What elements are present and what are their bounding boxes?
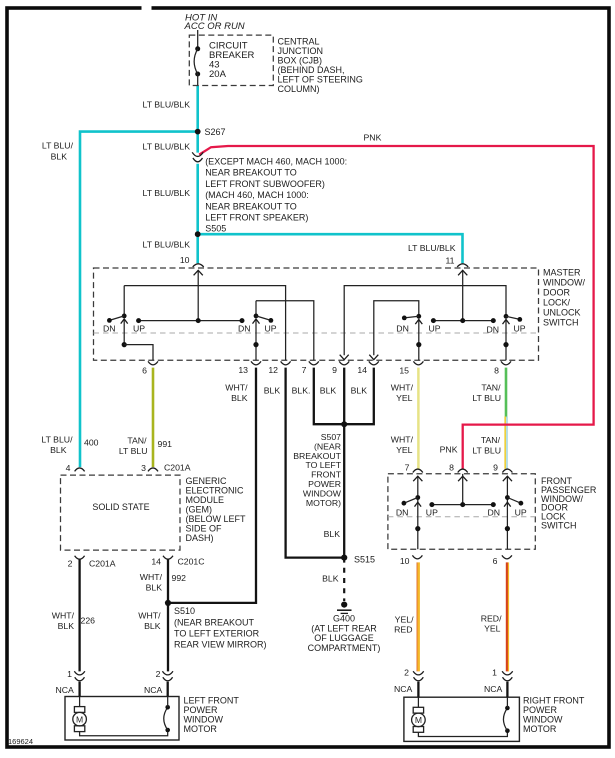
svg-text:LT BLU/BLK: LT BLU/BLK bbox=[143, 240, 191, 250]
svg-text:BLK: BLK bbox=[320, 386, 337, 396]
svg-text:LT BLU/BLK: LT BLU/BLK bbox=[143, 142, 191, 152]
svg-text:10: 10 bbox=[400, 556, 410, 566]
svg-text:992: 992 bbox=[172, 573, 187, 583]
svg-text:9: 9 bbox=[332, 365, 337, 375]
svg-text:14: 14 bbox=[357, 365, 367, 375]
front passenger window/door lock switch box bbox=[388, 474, 535, 550]
svg-text:2: 2 bbox=[68, 559, 73, 569]
svg-text:M: M bbox=[415, 715, 422, 725]
svg-text:C201A: C201A bbox=[89, 559, 116, 569]
master pin connector arcs bottom bbox=[148, 361, 158, 364]
svg-text:BLK: BLK bbox=[50, 445, 67, 455]
svg-text:15: 15 bbox=[399, 366, 409, 376]
svg-text:LT BLU: LT BLU bbox=[119, 446, 148, 456]
svg-text:BLK: BLK bbox=[322, 574, 339, 584]
svg-text:DN: DN bbox=[238, 324, 251, 334]
svg-text:LT BLU/: LT BLU/ bbox=[42, 141, 74, 151]
splice S510 bbox=[165, 600, 171, 606]
svg-text:NEAR BREAKOUT TO: NEAR BREAKOUT TO bbox=[205, 201, 297, 211]
LF motor M symbol bbox=[79, 697, 81, 707]
master rocker 1 (LF window) bbox=[123, 286, 125, 316]
passenger pin connector arcs bottom (10, 6) bbox=[412, 555, 422, 558]
splice S507 bbox=[341, 421, 347, 427]
svg-text:WHT/: WHT/ bbox=[391, 435, 414, 445]
svg-text:1: 1 bbox=[67, 669, 72, 679]
svg-text:UP: UP bbox=[514, 324, 526, 334]
ground G400 bbox=[341, 602, 347, 608]
svg-text:NCA: NCA bbox=[394, 684, 413, 694]
svg-text:UP: UP bbox=[426, 508, 438, 518]
RF motor M symbol bbox=[417, 697, 419, 707]
svg-text:169624: 169624 bbox=[8, 737, 33, 746]
wire H2: rocker 2 top to master pin 7 bbox=[256, 301, 314, 361]
svg-text:12: 12 bbox=[268, 365, 278, 375]
wire H3: master pin 9 arrow to rocker 4 bbox=[344, 286, 506, 356]
generic electronic module (GEM) box bbox=[61, 475, 181, 550]
central junction box (CJB) dashed box bbox=[189, 35, 273, 85]
svg-text:WHT/: WHT/ bbox=[225, 383, 248, 393]
svg-text:6: 6 bbox=[142, 366, 147, 376]
master pin 11 stem with arrow bbox=[462, 271, 464, 321]
svg-text:TO LEFT EXTERIOR: TO LEFT EXTERIOR bbox=[174, 629, 260, 639]
svg-text:LT BLU: LT BLU bbox=[472, 446, 501, 456]
master pin 10 stem with arrow bbox=[197, 271, 199, 321]
master feed bus (pin 10 side) bbox=[139, 320, 242, 322]
svg-text:BLK: BLK bbox=[231, 393, 248, 403]
splice S267 bbox=[195, 129, 201, 135]
svg-text:SIDE OF: SIDE OF bbox=[186, 524, 223, 534]
svg-text:S267: S267 bbox=[205, 127, 226, 137]
wire RED/YEL: passenger pin 6 to RF motor pin 1 bbox=[506, 562, 508, 671]
wire BLK: master pin 12 to S515 bbox=[286, 368, 345, 558]
svg-text:MOTOR: MOTOR bbox=[523, 724, 557, 734]
RF motor pin 1 inline connector bbox=[502, 671, 513, 675]
svg-text:3: 3 bbox=[141, 463, 146, 473]
svg-text:(EXCEPT MACH 460, MACH 1000:: (EXCEPT MACH 460, MACH 1000: bbox=[205, 157, 347, 167]
svg-text:14: 14 bbox=[151, 557, 161, 567]
passenger pin connector arcs top (7, 8, 9) bbox=[413, 469, 423, 472]
svg-text:991: 991 bbox=[158, 439, 173, 449]
wire BLK dashed: S515 to G400 bbox=[343, 558, 345, 601]
svg-text:UP: UP bbox=[429, 324, 441, 334]
svg-text:MOTOR): MOTOR) bbox=[306, 498, 341, 508]
svg-text:LEFT FRONT: LEFT FRONT bbox=[184, 696, 240, 706]
svg-text:PNK: PNK bbox=[364, 133, 382, 143]
svg-text:WHT/: WHT/ bbox=[138, 611, 161, 621]
splice S515 bbox=[341, 555, 347, 561]
svg-text:BLK: BLK bbox=[146, 583, 163, 593]
svg-text:RED/: RED/ bbox=[481, 614, 502, 624]
svg-text:1: 1 bbox=[492, 668, 497, 678]
svg-text:NCA: NCA bbox=[56, 685, 75, 695]
svg-text:UP: UP bbox=[133, 324, 145, 334]
svg-text:20A: 20A bbox=[209, 69, 227, 80]
passenger switch inner divider bbox=[388, 516, 535, 518]
RF motor internal breaker contact bbox=[418, 731, 507, 737]
svg-text:DASH): DASH) bbox=[186, 533, 214, 543]
svg-text:BLK: BLK bbox=[324, 529, 341, 539]
svg-text:(AT LEFT REAR: (AT LEFT REAR bbox=[311, 623, 377, 633]
svg-text:RED: RED bbox=[394, 625, 412, 635]
svg-text:YEL: YEL bbox=[396, 393, 413, 403]
svg-text:DOOR: DOOR bbox=[543, 288, 571, 298]
svg-text:S510: S510 bbox=[174, 606, 195, 616]
right front power window motor box bbox=[404, 697, 520, 741]
wire WHT/BLK 992: GEM pin 14 down through S510 to LF motor pin 2 bbox=[167, 559, 169, 671]
svg-text:8: 8 bbox=[494, 366, 499, 376]
svg-text:NCA: NCA bbox=[484, 684, 503, 694]
passenger feed bus from pin 8 bbox=[462, 474, 464, 505]
svg-text:RIGHT FRONT: RIGHT FRONT bbox=[523, 696, 585, 706]
svg-text:ACC OR RUN: ACC OR RUN bbox=[184, 21, 245, 32]
svg-text:BLK: BLK bbox=[351, 386, 368, 396]
svg-text:LT BLU/: LT BLU/ bbox=[41, 435, 73, 445]
wire H4: master pin 14 arrow to rocker 3 bbox=[374, 301, 419, 356]
svg-text:WHT/: WHT/ bbox=[391, 383, 414, 393]
svg-text:UNLOCK: UNLOCK bbox=[543, 308, 581, 318]
svg-text:C201C: C201C bbox=[178, 557, 205, 567]
svg-text:LEFT FRONT SPEAKER): LEFT FRONT SPEAKER) bbox=[205, 213, 308, 223]
svg-text:NCA: NCA bbox=[144, 685, 163, 695]
LF motor pin 2 inline connector bbox=[162, 671, 173, 675]
svg-text:DN: DN bbox=[103, 324, 116, 334]
wire TAN/LT BLU 991: master pin 6 to GEM pin 3 bbox=[152, 368, 155, 467]
wire LT BLU/BLK left branch: S267 to GEM pin 4 bbox=[80, 132, 198, 467]
svg-text:LOCK/: LOCK/ bbox=[543, 298, 571, 308]
svg-text:LEFT FRONT SUBWOOFER): LEFT FRONT SUBWOOFER) bbox=[205, 179, 325, 189]
wire WHT/BLK 226: GEM pin 2 to LF motor pin 1 bbox=[78, 559, 80, 671]
LF motor pin 1 inline connector bbox=[74, 671, 85, 675]
wire WHT/YEL: master pin 15 to passenger switch pin 7 bbox=[417, 368, 420, 469]
svg-text:TAN/: TAN/ bbox=[481, 383, 501, 393]
svg-text:13: 13 bbox=[238, 365, 248, 375]
passenger rocker A (window) bbox=[417, 476, 419, 549]
master pin connector arcs top (pins 10, 11) bbox=[193, 264, 204, 267]
circuit breaker 43 feed stub bbox=[197, 30, 199, 49]
master switch inner divider bbox=[94, 332, 539, 334]
circuit breaker 43 bbox=[195, 46, 200, 51]
master feed bus (pin 11 side) bbox=[433, 320, 493, 322]
svg-text:(NEAR BREAKOUT: (NEAR BREAKOUT bbox=[174, 618, 255, 628]
master rocker 4 (RF lock) bbox=[504, 314, 509, 319]
svg-text:(BEHIND DASH,: (BEHIND DASH, bbox=[278, 65, 345, 75]
svg-text:COMPARTMENT): COMPARTMENT) bbox=[308, 643, 381, 653]
wire YEL/RED: passenger pin 10 to RF motor pin 2 bbox=[416, 562, 418, 671]
svg-text:BLK: BLK bbox=[58, 621, 75, 631]
svg-text:JUNCTION: JUNCTION bbox=[278, 46, 324, 56]
GEM pin connector arcs bbox=[75, 468, 85, 471]
svg-text:LT BLU/BLK: LT BLU/BLK bbox=[408, 243, 456, 253]
wire LT BLU/BLK right branch: S505 to master switch pin 11 bbox=[198, 234, 463, 263]
svg-text:7: 7 bbox=[302, 365, 307, 375]
svg-text:(MACH 460, MACH 1000:: (MACH 460, MACH 1000: bbox=[205, 190, 309, 200]
svg-text:WHT/: WHT/ bbox=[52, 611, 75, 621]
svg-text:BLK.: BLK. bbox=[292, 386, 311, 396]
master rocker 2 (RF window) bbox=[255, 301, 257, 316]
svg-text:WHT/: WHT/ bbox=[140, 572, 163, 582]
svg-text:400: 400 bbox=[84, 438, 99, 448]
svg-text:LT BLU/BLK: LT BLU/BLK bbox=[143, 100, 191, 110]
wire LT BLU/BLK feed: circuit breaker to S267 bbox=[196, 85, 199, 152]
wire WHT/BLK: master pin 13 to S510 bbox=[168, 368, 256, 603]
svg-text:GENERIC: GENERIC bbox=[186, 476, 228, 486]
svg-text:DN: DN bbox=[487, 325, 500, 335]
RF motor pin 2 inline connector bbox=[413, 671, 424, 675]
svg-text:10: 10 bbox=[180, 255, 190, 265]
svg-text:OF LUGGAGE: OF LUGGAGE bbox=[314, 633, 374, 643]
svg-text:2: 2 bbox=[156, 669, 161, 679]
wire BLK: master pin 9 through S507 to S515 bbox=[343, 368, 345, 558]
svg-text:DN: DN bbox=[396, 508, 409, 518]
svg-text:DN: DN bbox=[396, 324, 409, 334]
svg-text:LT BLU: LT BLU bbox=[472, 393, 501, 403]
wire PNK: S267 breakout to passenger switch pin 8 bbox=[199, 146, 593, 469]
wire TAN/LT BLU lower two-tone segment to passenger pin 9 bbox=[504, 417, 506, 469]
svg-text:CENTRAL: CENTRAL bbox=[278, 37, 320, 47]
passenger rocker B (lock) bbox=[506, 476, 508, 549]
svg-text:M: M bbox=[76, 714, 83, 724]
svg-text:S515: S515 bbox=[354, 555, 375, 565]
wire TAN/LT BLU: master pin 8 down (green upper segment) bbox=[505, 368, 508, 418]
svg-text:COLUMN): COLUMN) bbox=[278, 84, 320, 94]
svg-text:BLK: BLK bbox=[264, 386, 281, 396]
splice S505 bbox=[195, 231, 201, 237]
svg-text:SOLID STATE: SOLID STATE bbox=[92, 502, 149, 512]
svg-text:MODULE: MODULE bbox=[186, 495, 225, 505]
svg-text:S505: S505 bbox=[205, 224, 226, 234]
svg-text:DN: DN bbox=[488, 508, 501, 518]
svg-text:BLK: BLK bbox=[51, 152, 68, 162]
svg-text:WINDOW/: WINDOW/ bbox=[543, 278, 585, 288]
breakout symbol below S267 bbox=[192, 152, 203, 156]
svg-text:UP: UP bbox=[515, 508, 527, 518]
svg-text:7: 7 bbox=[405, 463, 410, 473]
svg-text:(GEM): (GEM) bbox=[186, 505, 213, 515]
svg-text:BOX (CJB): BOX (CJB) bbox=[278, 56, 323, 66]
svg-text:SWITCH: SWITCH bbox=[541, 521, 577, 531]
wire BLK: master pin 14 to S507 bbox=[344, 368, 374, 425]
svg-text:NEAR BREAKOUT TO: NEAR BREAKOUT TO bbox=[205, 168, 297, 178]
svg-text:UP: UP bbox=[265, 324, 277, 334]
master window/door lock/unlock switch box bbox=[94, 268, 539, 360]
svg-text:SWITCH: SWITCH bbox=[543, 318, 579, 328]
LF motor internal breaker contact bbox=[80, 730, 168, 736]
svg-text:226: 226 bbox=[81, 616, 96, 626]
svg-text:BLK: BLK bbox=[144, 621, 161, 631]
svg-text:PNK: PNK bbox=[440, 445, 458, 455]
svg-text:9: 9 bbox=[493, 463, 498, 473]
svg-text:YEL: YEL bbox=[484, 624, 501, 634]
svg-text:6: 6 bbox=[493, 556, 498, 566]
svg-text:(BELOW LEFT: (BELOW LEFT bbox=[186, 514, 247, 524]
svg-text:C201A: C201A bbox=[164, 463, 191, 473]
svg-text:8: 8 bbox=[449, 463, 454, 473]
svg-text:11: 11 bbox=[445, 256, 454, 266]
svg-text:G400: G400 bbox=[333, 614, 355, 624]
left front power window motor box bbox=[65, 697, 179, 741]
svg-text:LT BLU/BLK: LT BLU/BLK bbox=[143, 188, 191, 198]
svg-text:TAN/: TAN/ bbox=[481, 435, 501, 445]
svg-text:LEFT OF STEERING: LEFT OF STEERING bbox=[278, 75, 363, 85]
master rocker 3 (LF lock) bbox=[416, 314, 421, 319]
svg-text:YEL/: YEL/ bbox=[395, 615, 414, 625]
svg-text:TAN/: TAN/ bbox=[127, 436, 147, 446]
svg-text:2: 2 bbox=[404, 668, 409, 678]
svg-text:YEL: YEL bbox=[396, 445, 413, 455]
svg-text:MOTOR: MOTOR bbox=[184, 724, 218, 734]
svg-text:4: 4 bbox=[66, 463, 71, 473]
svg-text:REAR VIEW MIRROR): REAR VIEW MIRROR) bbox=[174, 640, 267, 650]
wire BLK: master pin 7 to S507 bbox=[314, 368, 344, 425]
wire H1: rocker 1 top to master pin 12 bbox=[124, 286, 285, 361]
svg-text:MASTER: MASTER bbox=[543, 268, 581, 278]
svg-text:ELECTRONIC: ELECTRONIC bbox=[186, 486, 245, 496]
